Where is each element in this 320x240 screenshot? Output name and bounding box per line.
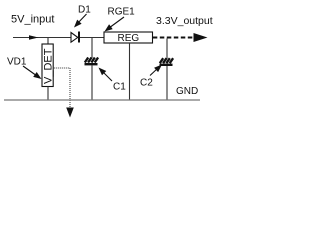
wire: C1 to ground bus — [91, 65, 93, 100]
wire: REG ground pin to bus — [129, 43, 131, 100]
capacitor C2 (polarized, hatched electrode) — [160, 58, 174, 66]
output arrowhead — [194, 33, 208, 42]
svg-text:3.3V_output: 3.3V_output — [156, 15, 213, 27]
leader arrow to C1 — [99, 68, 113, 82]
svg-text:C1: C1 — [113, 82, 126, 93]
wire: C2 to ground bus — [166, 66, 168, 100]
leader arrow to VD1 — [23, 66, 42, 79]
wire: diode cathode to REG input — [80, 37, 104, 39]
svg-text:C2: C2 — [140, 78, 153, 89]
capacitor C1 (polarized, hatched electrode) — [85, 58, 99, 66]
wire: junction down to capacitor C1 — [91, 38, 93, 59]
dotted reset signal line from V DET — [54, 68, 70, 107]
voltage detector VD1 (V_DET box) — [42, 44, 54, 87]
dashed output wire from REG — [153, 37, 195, 39]
leader arrow to C2 — [150, 65, 162, 76]
diode D1 — [71, 32, 79, 43]
svg-text:RGE1: RGE1 — [108, 7, 136, 18]
svg-text:REG: REG — [118, 33, 140, 44]
wire: output junction down to capacitor C2 — [166, 39, 168, 60]
svg-text:5V_input: 5V_input — [11, 14, 54, 26]
wire: junction down to V DET — [47, 38, 49, 45]
wire: V DET to ground bus — [47, 87, 49, 101]
svg-text:VD1: VD1 — [7, 57, 27, 68]
svg-text:GND: GND — [176, 86, 198, 97]
reset signal down arrowhead — [66, 108, 74, 118]
svg-text:D1: D1 — [78, 5, 91, 16]
svg-text:V_DET: V_DET — [42, 48, 54, 84]
wire: 5V input to diode anode — [13, 37, 71, 39]
regulator REG (RGE1) box — [104, 32, 153, 44]
leader arrow to D1 — [74, 14, 87, 28]
ground bus — [4, 99, 200, 101]
input flow arrow on wire — [29, 35, 39, 40]
leader arrow to RGE1 box — [105, 17, 125, 32]
